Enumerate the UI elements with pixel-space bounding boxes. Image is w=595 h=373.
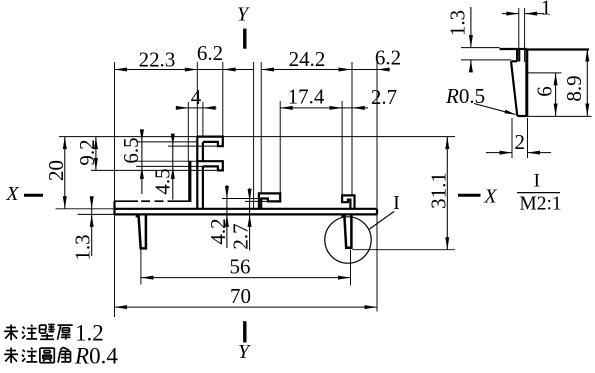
dimension 4.2 — [226, 185, 228, 248]
detail dim 2 — [486, 152, 512, 154]
extension line spine left top — [196, 62, 198, 137]
extension line middle gap — [253, 62, 255, 209]
svg-text:8.9: 8.9 — [562, 75, 586, 101]
svg-text:6.5: 6.5 — [119, 137, 143, 163]
svg-text:1: 1 — [541, 0, 552, 20]
detail foot left slant edge — [511, 61, 517, 116]
svg-text:20: 20 — [44, 160, 68, 181]
extension line dim4 right — [202, 102, 204, 137]
detail notch step — [516, 49, 518, 61]
svg-text:2.7: 2.7 — [371, 85, 397, 109]
extension line tab2 bottom — [91, 169, 218, 171]
dimension 20 — [64, 137, 66, 209]
profile base plate — [115, 208, 378, 210]
hook1 glazing hook on plate — [259, 193, 280, 208]
dimension 6.2 right — [377, 68, 390, 72]
extension line arm1 bottom — [136, 141, 197, 143]
svg-text:1.2: 1.2 — [75, 321, 104, 346]
extension line arm1 top long — [59, 136, 455, 138]
svg-text:4.2: 4.2 — [206, 218, 230, 244]
extension line hook1 underside — [222, 198, 261, 200]
dimension 6.5 — [141, 131, 143, 194]
X axis bar left — [24, 194, 43, 197]
hook2 glazing hook on plate — [342, 195, 354, 208]
svg-text:6: 6 — [533, 86, 557, 97]
extension line hook2 left — [341, 101, 343, 195]
dimension 4.5 — [172, 137, 174, 200]
dimension 4 — [176, 107, 217, 109]
dimension 6.2 left — [223, 68, 236, 72]
extension line plate left — [114, 62, 116, 317]
dimension 31.1 — [446, 137, 448, 250]
detail dim 1.3 ref lines — [461, 47, 500, 49]
extension line feet bottom right — [352, 249, 455, 251]
extension line dim4 left — [187, 102, 189, 161]
detail foot bottom — [517, 115, 527, 117]
extension line arm right top — [222, 62, 224, 137]
foot1 left leg below plate — [137, 214, 146, 248]
detail tab top — [517, 48, 527, 50]
svg-text:I: I — [534, 171, 540, 192]
leader line to I — [370, 212, 395, 230]
svg-text:2: 2 — [515, 130, 526, 154]
detail callout circle I — [325, 217, 371, 263]
svg-text:6.2: 6.2 — [197, 41, 223, 65]
detail dim 1 extension lines — [518, 8, 520, 62]
E-feature arm1 with tab — [197, 137, 223, 147]
svg-text:6.2: 6.2 — [375, 46, 401, 70]
svg-text:1.3: 1.3 — [71, 234, 95, 260]
Y axis bar top — [243, 29, 246, 49]
upper flange top edge with dashed middle — [115, 200, 139, 202]
extension line hook1 right — [279, 101, 281, 193]
extension line plate right lower — [376, 214, 378, 311]
svg-text:70: 70 — [230, 284, 251, 308]
svg-text:X: X — [5, 183, 19, 205]
E-feature arm2 with tab — [197, 161, 223, 170]
foot2 right leg below plate — [343, 214, 352, 247]
dimension 24.2 — [262, 69, 391, 71]
note line2: wei zhu yuan jiao R0.4 — [4, 348, 18, 364]
detail dim 1.3 — [470, 7, 472, 48]
svg-text:Y: Y — [238, 341, 251, 363]
detail foot right edge — [525, 49, 528, 116]
detail dim 6 extension — [527, 72, 562, 74]
svg-text:2.7: 2.7 — [229, 223, 253, 249]
extension line foot1 bottom — [140, 250, 142, 285]
detail foot bottom extension — [517, 115, 591, 117]
extension line foot2 bottom — [350, 250, 352, 286]
detail dim 6 — [555, 73, 557, 116]
svg-text:4: 4 — [191, 85, 202, 109]
detail plate top right segment — [527, 48, 589, 50]
svg-text:Y: Y — [237, 4, 250, 26]
svg-text:1.3: 1.3 — [446, 10, 470, 36]
detail dim 2 extension lines — [511, 118, 513, 158]
svg-text:56: 56 — [230, 255, 251, 279]
extension line hook2 right — [351, 62, 353, 195]
svg-text:31.1: 31.1 — [426, 172, 450, 209]
dimension 9.2 — [95, 137, 97, 171]
svg-text:M2:1: M2:1 — [519, 194, 561, 215]
extension line tab1 bottom — [168, 145, 218, 147]
extension line plate bottom left — [78, 213, 115, 215]
extension line arm2 top — [136, 160, 197, 162]
svg-text:I: I — [393, 192, 400, 214]
dimension 17.4 — [280, 107, 342, 109]
extension line plate right upper — [376, 62, 378, 209]
dimension 70 — [115, 306, 378, 308]
svg-text:17.4: 17.4 — [288, 85, 325, 109]
spine vertical wall of E-feature — [196, 137, 198, 209]
svg-text:4.5: 4.5 — [150, 168, 174, 194]
svg-text:R0.4: R0.4 — [74, 344, 118, 369]
dimension 1.3 left — [91, 199, 93, 256]
dimension 56 — [141, 277, 351, 279]
dimension 22.3 — [115, 69, 254, 71]
X axis bar right — [458, 194, 481, 197]
note line1: wei zhu bi hou 1.2 — [4, 325, 18, 341]
small wall left of spine — [188, 161, 191, 201]
svg-text:22.3: 22.3 — [139, 48, 176, 72]
detail tab inner line — [518, 49, 520, 61]
svg-text:X: X — [483, 186, 497, 208]
extension line plate top left — [56, 208, 115, 210]
dimension 2.7 top — [342, 107, 368, 109]
extension line hook1 wall — [260, 62, 262, 193]
svg-text:9.2: 9.2 — [75, 139, 99, 165]
detail dim 8.9 — [586, 49, 588, 116]
extension line arm2 bottom — [136, 165, 203, 167]
Y axis bar bottom — [243, 321, 246, 342]
detail plate top left segment — [500, 48, 518, 50]
extension line hook1 lip bottom — [245, 200, 268, 202]
dimension 2.7 bottom — [249, 188, 251, 251]
svg-text:24.2: 24.2 — [289, 47, 326, 71]
detail dim 1 — [502, 13, 519, 15]
